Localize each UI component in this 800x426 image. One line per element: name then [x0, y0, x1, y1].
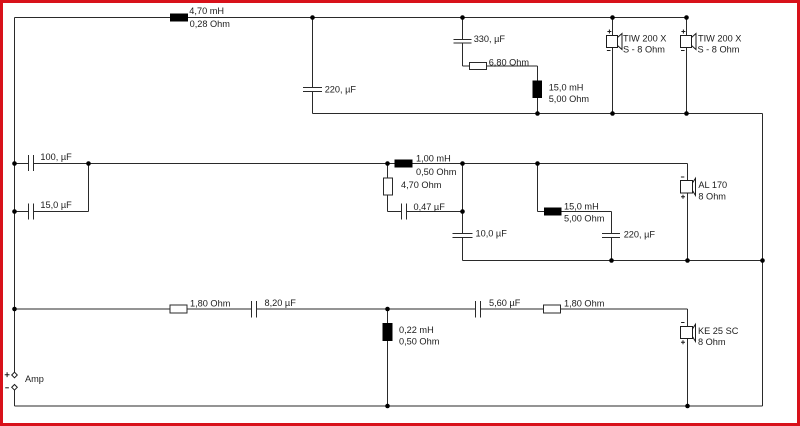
svg-text:0,22 mH: 0,22 mH: [399, 325, 434, 335]
svg-text:Amp: Amp: [25, 374, 44, 384]
svg-text:15,0 mH: 15,0 mH: [564, 201, 599, 211]
svg-text:4,70 Ohm: 4,70 Ohm: [401, 180, 442, 190]
svg-text:220, µF: 220, µF: [624, 230, 656, 240]
svg-text:330, µF: 330, µF: [474, 34, 506, 44]
svg-text:100, µF: 100, µF: [40, 152, 72, 162]
svg-text:0,28 Ohm: 0,28 Ohm: [190, 19, 231, 29]
svg-text:TIW 200 X: TIW 200 X: [698, 33, 741, 43]
svg-text:S - 8 Ohm: S - 8 Ohm: [698, 44, 740, 54]
svg-text:8 Ohm: 8 Ohm: [698, 192, 726, 202]
svg-text:220, µF: 220, µF: [325, 85, 357, 95]
svg-text:0,50 Ohm: 0,50 Ohm: [416, 167, 457, 177]
svg-text:TIW 200 X: TIW 200 X: [623, 33, 666, 43]
svg-text:KE 25 SC: KE 25 SC: [698, 326, 739, 336]
svg-text:8,20 µF: 8,20 µF: [265, 298, 297, 308]
svg-text:5,00 Ohm: 5,00 Ohm: [564, 214, 605, 224]
svg-text:S - 8 Ohm: S - 8 Ohm: [623, 44, 665, 54]
svg-text:15,0 mH: 15,0 mH: [549, 82, 584, 92]
svg-text:5,00 Ohm: 5,00 Ohm: [549, 94, 590, 104]
svg-text:1,80 Ohm: 1,80 Ohm: [190, 298, 231, 308]
svg-text:0,50 Ohm: 0,50 Ohm: [399, 337, 440, 347]
svg-text:1,00 mH: 1,00 mH: [416, 153, 451, 163]
svg-text:8 Ohm: 8 Ohm: [698, 337, 726, 347]
svg-text:5,60 µF: 5,60 µF: [489, 298, 521, 308]
svg-text:6,80 Ohm: 6,80 Ohm: [489, 58, 530, 68]
svg-text:4,70 mH: 4,70 mH: [189, 6, 224, 16]
svg-text:0,47 µF: 0,47 µF: [414, 202, 446, 212]
svg-text:AL 170: AL 170: [698, 180, 727, 190]
svg-text:10,0 µF: 10,0 µF: [476, 229, 508, 239]
svg-text:1,80 Ohm: 1,80 Ohm: [564, 298, 605, 308]
svg-text:15,0 µF: 15,0 µF: [40, 200, 72, 210]
